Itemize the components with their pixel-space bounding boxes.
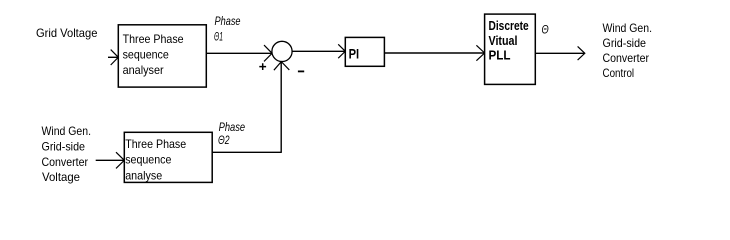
- svg-text:Control: Control: [603, 66, 635, 80]
- wire: analyser 1 to summing junction: [206, 52, 271, 54]
- arrowhead PLL output: [578, 46, 585, 60]
- block U3: Discrete Vitual PLL: [485, 14, 536, 84]
- wire: analyser 2 output horizontal: [212, 151, 281, 153]
- svg-text:PI: PI: [349, 45, 360, 61]
- block U4: Three Phase sequence analyse: [124, 132, 212, 182]
- arrowhead into PLL: [476, 45, 484, 60]
- svg-text:Phase: Phase: [215, 14, 241, 28]
- svg-text:Three Phase: Three Phase: [125, 137, 186, 151]
- svg-text:Three Phase: Three Phase: [123, 32, 184, 46]
- wire: vertical up to summing junction: [280, 62, 282, 153]
- svg-text:Θ1: Θ1: [214, 29, 223, 43]
- label: plus sign: [259, 63, 266, 70]
- wire: PI to Discrete Vitual PLL: [384, 52, 484, 54]
- svg-text:sequence: sequence: [125, 153, 171, 167]
- block U1: Three Phase sequence analyser: [118, 25, 206, 87]
- svg-text:Θ2: Θ2: [218, 133, 230, 147]
- wire: converter voltage into analyser 2: [96, 159, 125, 161]
- svg-text:Wind Gen.: Wind Gen.: [42, 124, 92, 138]
- svg-text:Wind Gen.: Wind Gen.: [603, 21, 653, 35]
- svg-text:sequence: sequence: [123, 47, 169, 61]
- svg-text:Discrete: Discrete: [489, 18, 529, 33]
- label: minus sign: [298, 70, 304, 72]
- arrowhead into summing junction bottom: [274, 62, 289, 71]
- svg-text:Phase: Phase: [219, 120, 246, 134]
- svg-text:Converter: Converter: [603, 51, 650, 65]
- wire: grid voltage into analyser 1: [108, 56, 118, 58]
- arrowhead into analyser 2: [116, 152, 124, 168]
- arrowhead into PI: [338, 44, 345, 58]
- wire: summing junction to PI: [292, 50, 345, 52]
- svg-text:Θ: Θ: [542, 23, 549, 37]
- block U2: PI controller: [345, 37, 384, 66]
- wire: PLL output: [535, 52, 584, 54]
- svg-text:Grid-side: Grid-side: [603, 36, 647, 50]
- svg-text:Voltage: Voltage: [42, 170, 80, 184]
- svg-text:Vitual: Vitual: [489, 33, 518, 48]
- svg-text:Converter: Converter: [42, 155, 89, 169]
- svg-text:Grid-side: Grid-side: [42, 140, 86, 154]
- svg-text:analyse: analyse: [125, 168, 162, 182]
- arrowhead into analyser 1: [111, 50, 119, 65]
- summing junction circle: [272, 41, 292, 61]
- svg-text:Grid Voltage: Grid Voltage: [36, 26, 98, 40]
- arrowhead into summing junction left: [264, 45, 272, 61]
- svg-text:analyser: analyser: [123, 63, 164, 77]
- svg-text:PLL: PLL: [489, 48, 511, 63]
